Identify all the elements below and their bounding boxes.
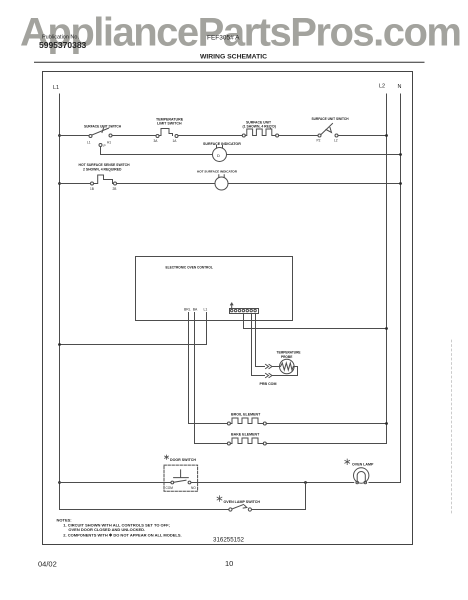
wire row1 left [60,135,89,137]
svg-text:L1: L1 [87,141,91,145]
svg-text:D: D [217,153,220,158]
svg-text:N: N [398,84,402,90]
wire L2 feed from connector [244,314,387,329]
svg-text:ELECTRONIC OVEN CONTROL: ELECTRONIC OVEN CONTROL [166,266,213,270]
svg-text:H1: H1 [107,141,111,145]
svg-text:L1: L1 [53,85,59,91]
connector plug chevrons lower [266,373,273,377]
wire BA to bake element [195,443,228,445]
oven lamp switch asterisk [217,496,222,502]
wire row1 mid2 [178,135,242,137]
wire row1 right [279,135,318,137]
pin stub BA [194,313,196,321]
broil element [227,422,230,425]
svg-text:PRB COM: PRB COM [260,382,277,386]
pilot branch wire down [101,147,213,155]
surface unit element [242,134,245,137]
wire door row left [60,482,171,484]
junction L1 pin [58,343,61,346]
door switch plunger [174,470,189,478]
oven lamp switch S4 [229,508,232,511]
wire indicator to N [227,154,401,156]
svg-text:OVEN LAMP SWITCH: OVEN LAMP SWITCH [224,500,261,504]
wire bake to L2 [266,443,386,445]
wire to probe [272,366,280,368]
wire row2 mid [117,183,216,185]
wire BRL to broil element [189,423,228,425]
pin stub BRL [188,313,190,321]
svg-text:HOT SURFACE INDICATOR: HOT SURFACE INDICATOR [197,170,238,174]
wire BRL pin down [188,321,190,424]
schematic frame [43,72,413,545]
svg-text:L1: L1 [204,308,208,312]
wire broil to L2 [266,423,386,425]
wire row1 mid [112,135,156,137]
wire BA pin down [194,321,196,444]
wire lamp to N [369,482,401,484]
wire lamp switch row left [60,509,229,511]
svg-text:OVEN LAMP: OVEN LAMP [352,463,374,467]
svg-text:SURFACE UNIT SWITCH: SURFACE UNIT SWITCH [312,117,350,121]
N bus wire [400,94,402,483]
oven lamp asterisk [345,459,350,465]
pilot terminal P [99,144,102,147]
connector J1 [230,309,259,314]
svg-text:10: 10 [225,559,233,568]
svg-text:1B: 1B [90,187,94,191]
junction broil L2 [385,422,388,425]
door switch contacts [171,481,174,484]
svg-text:2 SHOWN, 4 REQUIRED: 2 SHOWN, 4 REQUIRED [83,168,122,172]
svg-text:FEF305# A: FEF305# A [207,35,240,42]
wire row2 left [60,183,91,185]
wire row1 to L2 [338,135,387,137]
L2 bus wire [386,94,388,444]
svg-text:LIMIT SWITCH: LIMIT SWITCH [157,122,182,126]
bake element [227,442,230,445]
svg-text:HOT SURFACE SENSE SWITCH: HOT SURFACE SENSE SWITCH [79,163,131,167]
oven lamp E1 [354,468,369,483]
door switch asterisk [165,455,169,459]
svg-text:2B: 2B [113,187,117,191]
svg-text:COM: COM [166,486,174,490]
svg-text:BROIL ELEMENT: BROIL ELEMENT [231,412,261,416]
junction on L1 row2 [58,182,61,185]
svg-text:316255152: 316255152 [213,537,245,544]
electronic oven control U1 [136,257,293,321]
L1 bus wire [59,94,61,510]
svg-text:2. COMPONENTS WITH ✱ DO NOT: 2. COMPONENTS WITH ✱ DO NOT APPEAR ON AL… [63,532,181,537]
wire door switch to lamp [191,482,354,484]
surface unit switch SW2 [318,134,321,137]
wire probe lower feed [252,314,265,376]
wire row2 to N [228,183,401,185]
connector arrow mark [231,303,233,308]
svg-text:L2: L2 [379,84,385,90]
hot surface indicator lamp [215,177,228,190]
probe return loop wire [272,367,298,376]
temperature limit switch [156,135,159,138]
svg-text:P: P [104,144,106,148]
title underline [35,61,425,63]
svg-text:SURFACE UNIT SWITCH: SURFACE UNIT SWITCH [84,125,122,129]
svg-text:04/02: 04/02 [38,560,57,569]
svg-text:1A: 1A [173,139,178,143]
surface indicator lamp [213,148,227,162]
junction row2 N [399,182,402,185]
surface unit switch SW1 [89,135,92,138]
junction row1 L2 [385,134,388,137]
junction indicator N [399,153,402,156]
temperature probe RT1 [280,359,295,374]
svg-text:AppliancePartsPros.com: AppliancePartsPros.com [20,11,462,55]
wire probe upper feed [256,314,265,367]
svg-text:DOOR SWITCH: DOOR SWITCH [170,458,196,462]
svg-text:NO: NO [191,486,196,490]
svg-text:BRL: BRL [184,308,191,312]
hot surface sense switch [91,182,94,185]
svg-text:(1 SHOWN, 4 REQ'D): (1 SHOWN, 4 REQ'D) [243,125,276,129]
pin stub L1 [206,313,208,321]
wire lamp switch to branch [252,483,306,510]
door switch S3 dashed box [164,465,198,491]
wire L1 pin to L1 bus [60,321,207,345]
svg-text:BAKE ELEMENT: BAKE ELEMENT [231,432,260,436]
svg-text:BA: BA [193,308,198,312]
connector plug chevrons upper [266,364,273,368]
junction on L1 row1 [58,134,61,137]
svg-text:5995370383: 5995370383 [39,40,87,50]
junction L2 feed [385,327,388,330]
svg-text:L2: L2 [334,139,338,143]
junction lamp branch [304,481,307,484]
svg-text:3A: 3A [154,139,159,143]
svg-text:PROBE: PROBE [281,355,292,359]
junction L1 door row [58,481,61,484]
scan artifact line [451,340,453,515]
svg-text:WIRING SCHEMATIC: WIRING SCHEMATIC [200,54,267,61]
svg-text:P2: P2 [317,139,321,143]
